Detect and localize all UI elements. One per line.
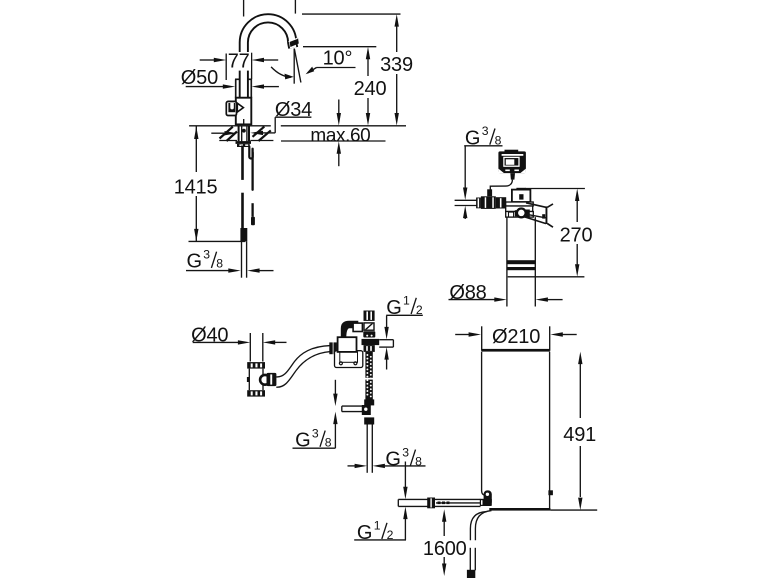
svg-text:1415: 1415 bbox=[174, 176, 218, 198]
svg-text:339: 339 bbox=[380, 54, 413, 76]
svg-text:Ø210: Ø210 bbox=[492, 326, 540, 348]
svg-text:240: 240 bbox=[354, 78, 387, 100]
svg-text:1: 1 bbox=[403, 294, 410, 308]
svg-text:77: 77 bbox=[228, 51, 250, 73]
svg-text:8: 8 bbox=[325, 436, 332, 450]
svg-text:Ø50: Ø50 bbox=[181, 67, 218, 89]
svg-text:max.60: max.60 bbox=[310, 126, 370, 147]
svg-text:270: 270 bbox=[560, 225, 593, 247]
svg-text:8: 8 bbox=[216, 257, 223, 271]
svg-text:3: 3 bbox=[203, 247, 210, 261]
svg-text:G: G bbox=[385, 449, 401, 471]
svg-text:10°: 10° bbox=[323, 47, 353, 69]
svg-text:G: G bbox=[187, 251, 203, 273]
svg-text:Ø34: Ø34 bbox=[275, 99, 312, 121]
svg-text:3: 3 bbox=[482, 124, 489, 138]
svg-text:3: 3 bbox=[402, 445, 409, 459]
svg-text:491: 491 bbox=[563, 424, 596, 446]
svg-text:3: 3 bbox=[312, 426, 319, 440]
svg-text:1600: 1600 bbox=[423, 538, 467, 560]
svg-text:Ø88: Ø88 bbox=[449, 282, 486, 304]
svg-text:Ø40: Ø40 bbox=[191, 324, 228, 346]
svg-text:1: 1 bbox=[374, 519, 381, 533]
